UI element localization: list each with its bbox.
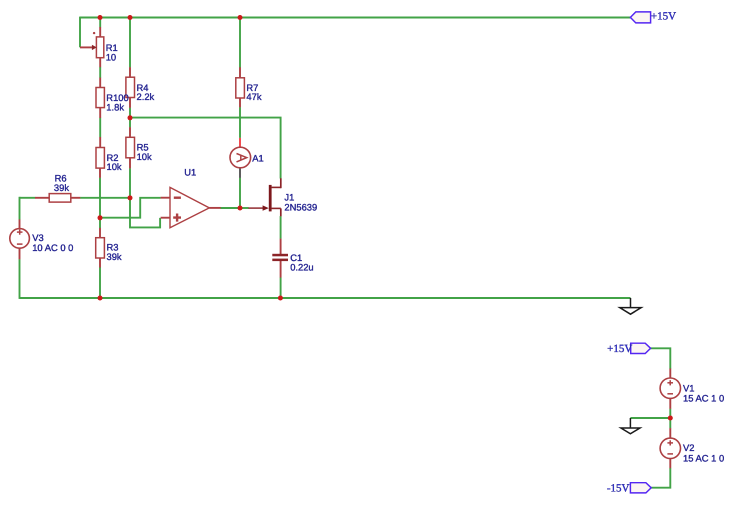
lead R1 bottom xyxy=(99,57,101,67)
lead R4 bottom xyxy=(129,97,131,108)
lead V2 top xyxy=(669,428,671,438)
resistor R1 body xyxy=(96,37,103,58)
lead op-amp minus input xyxy=(161,197,170,199)
wire rail to R1 top xyxy=(99,18,101,28)
svg-text:0.22u: 0.22u xyxy=(290,262,313,273)
svg-text:-15V: -15V xyxy=(607,482,630,494)
wire C1 to bottom rail xyxy=(280,277,282,298)
lead R6 right xyxy=(70,197,81,199)
lead C1 top xyxy=(280,239,282,255)
lead C1 bottom xyxy=(280,261,282,278)
wire node to J1 drain drop xyxy=(130,118,281,179)
transistor J1 (NJF) xyxy=(248,178,280,216)
label R7 xyxy=(246,82,261,102)
svg-text:39k: 39k xyxy=(107,251,122,262)
resistor R5 body xyxy=(126,137,135,158)
junction node A xyxy=(128,195,133,200)
ammeter A1 xyxy=(230,147,251,168)
wire op-amp output to node xyxy=(221,207,241,209)
lead R2 bottom xyxy=(99,168,101,178)
wire V3 top xyxy=(19,197,21,220)
lead V2 bottom xyxy=(669,458,671,468)
wire V3 corner to R6 xyxy=(20,197,36,199)
label R2 xyxy=(107,152,122,172)
wire rail to R7 xyxy=(239,18,241,68)
wire V2 bottom to -15V flag xyxy=(651,468,670,488)
junction C1 bottom rail xyxy=(278,296,283,301)
wire +15V flag to V1 xyxy=(651,348,671,368)
resistor R4 body xyxy=(126,77,135,97)
svg-text:A1: A1 xyxy=(252,152,263,163)
svg-text:10 AC 0 0: 10 AC 0 0 xyxy=(32,242,73,253)
wire R6 to node A xyxy=(80,197,130,199)
wire J1 source to C1 xyxy=(280,216,282,239)
wire R7 to A1 xyxy=(239,107,241,138)
resistor R3 body xyxy=(96,238,105,258)
label V3 xyxy=(32,232,73,253)
label J1 xyxy=(284,192,317,213)
potentiometer R1 index dot xyxy=(93,32,95,34)
lead V3 bottom xyxy=(19,248,21,259)
ground main xyxy=(620,298,641,314)
resistor R7 body xyxy=(236,78,245,98)
wire rail to R4 xyxy=(129,18,131,68)
label R3 xyxy=(107,241,122,261)
resistor R100 body xyxy=(96,88,104,108)
label V2 xyxy=(683,442,724,463)
lead R100 bottom xyxy=(99,107,101,118)
svg-text:15 AC 1 0: 15 AC 1 0 xyxy=(683,453,724,464)
lead R7 top xyxy=(239,67,241,78)
resistor R2 body xyxy=(96,148,104,169)
lead R4 top xyxy=(129,67,131,77)
junction output node xyxy=(238,206,243,211)
wire node to ground xyxy=(630,417,670,419)
wire R5 bottom jog to op-amp plus input xyxy=(130,168,160,227)
wire V3 bottom xyxy=(19,259,21,299)
lead R5 top xyxy=(129,127,131,137)
resistor R6 body xyxy=(49,194,71,203)
label R100 xyxy=(106,92,128,112)
svg-text:+15V: +15V xyxy=(651,11,676,23)
svg-text:2N5639: 2N5639 xyxy=(284,202,317,213)
voltage source V1 xyxy=(660,378,680,398)
svg-text:39k: 39k xyxy=(54,182,69,193)
wire V1 bottom to node xyxy=(669,409,671,418)
voltage source V3 circle xyxy=(10,229,30,249)
lead R6 left xyxy=(35,197,50,199)
potentiometer R1 wiper arrowhead xyxy=(92,45,97,50)
svg-text:+15V: +15V xyxy=(607,343,632,355)
label R1 xyxy=(106,42,118,62)
junction R4 bottom node xyxy=(128,115,133,120)
junction R3 bottom rail xyxy=(98,296,103,301)
label R6 xyxy=(54,173,69,193)
wire node to V2 top xyxy=(669,418,671,428)
lead R3 bottom xyxy=(99,258,101,268)
junction rail-R1 xyxy=(98,15,103,20)
svg-text:47k: 47k xyxy=(246,91,261,102)
wire top rail xyxy=(80,17,631,19)
svg-text:U1: U1 xyxy=(184,167,196,178)
wire node B jog to op-amp minus input xyxy=(100,198,161,218)
svg-text:10k: 10k xyxy=(107,161,122,172)
wire node to J1 gate xyxy=(240,207,249,209)
wire left drop to R1 wiper xyxy=(79,17,81,48)
junction V1 V2 node xyxy=(668,416,673,421)
svg-text:15 AC 1 0: 15 AC 1 0 xyxy=(683,393,724,404)
lead op-amp output xyxy=(209,207,220,209)
lead A1 bottom black xyxy=(239,168,241,178)
lead R3 top xyxy=(99,228,101,238)
wire R3 to bottom rail xyxy=(99,267,101,298)
wire A1 to output node xyxy=(239,178,241,208)
svg-text:2.2k: 2.2k xyxy=(137,91,155,102)
lead V3 top xyxy=(19,219,21,228)
svg-text:10k: 10k xyxy=(137,151,152,162)
junction rail-R7 xyxy=(238,15,243,20)
flag -15V supply xyxy=(630,483,651,493)
svg-text:1.8k: 1.8k xyxy=(106,101,124,112)
lead R1 wiper xyxy=(80,46,93,48)
wire R100 to R2 xyxy=(99,118,101,137)
lead R5 bottom xyxy=(129,158,131,169)
svg-text:10: 10 xyxy=(106,51,116,62)
lead R2 top xyxy=(99,137,101,148)
voltage source V2 xyxy=(660,438,680,458)
capacitor C1 xyxy=(272,254,288,261)
lead R100 top xyxy=(99,78,101,88)
label U1 xyxy=(184,167,196,178)
label R5 xyxy=(137,142,152,162)
junction node B xyxy=(98,215,103,220)
wire bottom rail xyxy=(20,297,631,299)
lead V1 bottom xyxy=(669,398,671,408)
label V1 xyxy=(683,382,724,403)
lead R7 bottom xyxy=(239,98,241,108)
wire R4 bottom to node xyxy=(129,108,131,118)
flag +15V top xyxy=(630,12,650,23)
lead R1 top xyxy=(99,27,101,38)
wire R2 to node B to R3 xyxy=(99,178,101,229)
op-amp U1 xyxy=(170,187,209,227)
ground supply xyxy=(621,418,640,434)
lead A1 top red xyxy=(239,138,241,147)
label C1 xyxy=(290,252,313,272)
lead V1 top xyxy=(669,369,671,379)
junction rail-R4 xyxy=(128,15,133,20)
wire R1 to R100 xyxy=(99,67,101,78)
label A1 xyxy=(252,152,263,163)
label R4 xyxy=(137,82,155,102)
flag +15V supply xyxy=(631,343,651,353)
lead op-amp plus input xyxy=(161,217,170,219)
wire node to R5 top xyxy=(129,118,131,128)
